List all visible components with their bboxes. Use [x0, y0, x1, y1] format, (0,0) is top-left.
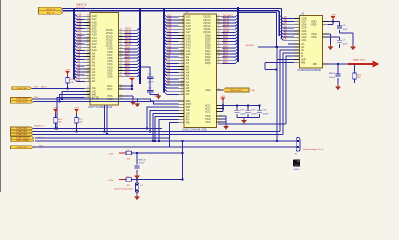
svg-text:11: 11: [87, 74, 89, 76]
svg-text:VSS: VSS: [311, 35, 317, 39]
svg-text:DQ6: DQ6: [223, 43, 228, 45]
svg-text:15: 15: [87, 61, 89, 63]
svg-text:DQ12: DQ12: [125, 38, 132, 40]
svg-text:A14: A14: [167, 39, 172, 42]
svg-text:10: 10: [87, 77, 89, 79]
svg-text:11: 11: [181, 46, 183, 48]
svg-text:31: 31: [120, 69, 122, 71]
svg-text:A12: A12: [167, 45, 172, 48]
svg-text:21: 21: [181, 77, 183, 79]
svg-text:23: 23: [181, 84, 183, 86]
svg-text:19: 19: [181, 71, 183, 73]
svg-text:37: 37: [120, 50, 122, 52]
svg-text:15: 15: [87, 96, 89, 98]
svg-text:+3V3: +3V3: [53, 107, 59, 109]
svg-text:32: 32: [120, 66, 122, 68]
svg-text:10K: 10K: [357, 77, 361, 79]
svg-text:27: 27: [87, 24, 89, 26]
svg-text:Default setting: 0pen: Default setting: 0pen: [114, 187, 134, 190]
svg-text:1: 1: [298, 17, 299, 19]
svg-text:9: 9: [88, 80, 89, 82]
svg-text:38: 38: [218, 43, 220, 45]
svg-text:A13: A13: [167, 42, 172, 45]
svg-text:14: 14: [87, 93, 89, 95]
svg-text:10: 10: [181, 43, 183, 45]
svg-text:100nF: 100nF: [329, 77, 336, 79]
svg-text:17: 17: [181, 65, 183, 67]
svg-text:33: 33: [120, 88, 122, 90]
svg-text:36: 36: [218, 37, 220, 39]
svg-text:DQ4: DQ4: [125, 63, 130, 65]
svg-text:3: 3: [298, 23, 299, 25]
svg-text:DQ13: DQ13: [223, 22, 230, 24]
svg-text:DQ15/A-1: DQ15/A-1: [223, 14, 234, 17]
svg-text:12: 12: [120, 95, 122, 97]
svg-text:29: 29: [87, 18, 89, 20]
svg-text:DQ5: DQ5: [125, 60, 130, 62]
svg-text:22: 22: [87, 40, 89, 42]
svg-text:P5M6_INT1: P5M6_INT1: [16, 147, 28, 149]
svg-text:A13: A13: [77, 39, 82, 42]
svg-text:P5M6_NWAIT: P5M6_NWAIT: [16, 139, 30, 142]
svg-text:A10: A10: [167, 52, 172, 55]
svg-text:R1H: R1H: [357, 75, 362, 77]
svg-text:4: 4: [182, 25, 183, 27]
svg-text:16: 16: [181, 62, 183, 64]
svg-text:12: 12: [87, 87, 89, 89]
svg-text:VCC: VCC: [107, 87, 113, 91]
svg-text:DQ11: DQ11: [223, 28, 230, 30]
svg-text:A17: A17: [167, 30, 172, 33]
svg-text:DQ2: DQ2: [125, 69, 130, 71]
svg-text:+3V3: +3V3: [129, 76, 135, 78]
svg-text:A0: A0: [92, 79, 96, 83]
svg-text:DQ9: DQ9: [223, 34, 228, 36]
svg-text:DQ2: DQ2: [223, 56, 228, 58]
svg-text:10K: 10K: [70, 82, 74, 84]
svg-text:11: 11: [120, 85, 122, 87]
svg-text:+3V3: +3V3: [74, 107, 80, 109]
svg-text:NAND512W3A2BN6E: NAND512W3A2BN6E: [298, 69, 322, 72]
svg-text:DQ13: DQ13: [125, 35, 132, 37]
svg-text:29: 29: [120, 75, 122, 77]
svg-text:8: 8: [298, 39, 299, 41]
svg-text:A10: A10: [77, 48, 82, 51]
svg-text:+3V3: +3V3: [220, 96, 226, 98]
svg-text:+1V8: +1V8: [331, 14, 337, 16]
svg-text:P5M6_NOE: P5M6_NOE: [16, 102, 28, 104]
svg-text:DQ3: DQ3: [223, 53, 228, 55]
svg-text:MMC9: MMC9: [329, 73, 336, 75]
svg-text:P5M6_NE1: P5M6_NE1: [16, 88, 27, 90]
svg-text:100nF: 100nF: [139, 163, 146, 165]
svg-text:38: 38: [120, 47, 122, 49]
svg-text:DQ8: DQ8: [125, 50, 130, 52]
svg-text:29: 29: [218, 15, 220, 17]
svg-text:26: 26: [218, 89, 220, 91]
svg-text:DQ15: DQ15: [125, 29, 132, 31]
svg-text:RB: RB: [313, 62, 317, 66]
svg-text:42: 42: [218, 56, 220, 58]
svg-text:10K: 10K: [79, 121, 83, 123]
svg-text:+3V3: +3V3: [108, 154, 114, 156]
svg-text:28: 28: [87, 21, 89, 23]
svg-text:100nF: 100nF: [240, 113, 247, 115]
svg-text:DQ6: DQ6: [125, 57, 130, 59]
svg-text:41: 41: [120, 38, 122, 40]
svg-text:36: 36: [120, 54, 122, 56]
svg-text:24: 24: [87, 33, 89, 35]
svg-text:10nF: 10nF: [343, 29, 348, 31]
svg-text:SW14: SW14: [294, 169, 301, 171]
svg-text:15: 15: [181, 59, 183, 61]
svg-text:A16: A16: [167, 33, 172, 36]
svg-text:37: 37: [218, 40, 220, 42]
svg-text:R: R: [301, 54, 303, 58]
svg-text:A12: A12: [77, 42, 82, 45]
svg-text:1O1: 1O1: [301, 38, 307, 42]
svg-text:PB: PB: [186, 121, 190, 125]
svg-text:21: 21: [87, 43, 89, 45]
svg-text:24: 24: [181, 87, 183, 89]
svg-text:9: 9: [182, 40, 183, 42]
svg-text:22: 22: [181, 80, 183, 82]
svg-text:DQ7: DQ7: [223, 40, 228, 42]
svg-text:34: 34: [218, 31, 220, 33]
svg-text:DQ10: DQ10: [125, 44, 132, 46]
svg-text:P5M6_NCE1: P5M6_NCE1: [230, 90, 243, 92]
svg-text:1: 1: [182, 15, 183, 17]
svg-text:10K: 10K: [58, 121, 62, 123]
svg-text:A18 R30: A18 R30: [246, 44, 255, 47]
svg-text:6: 6: [182, 31, 183, 33]
svg-text:12: 12: [181, 49, 183, 51]
svg-text:DQ14: DQ14: [223, 18, 230, 20]
svg-text:30: 30: [218, 18, 220, 20]
svg-text:5: 5: [298, 29, 299, 31]
svg-text:A20: A20: [167, 21, 172, 24]
svg-text:41: 41: [218, 53, 220, 55]
svg-text:12: 12: [87, 71, 89, 73]
svg-text:40: 40: [218, 49, 220, 51]
svg-text:I/O0: I/O0: [107, 75, 113, 79]
svg-text:DQ8: DQ8: [223, 37, 228, 39]
svg-text:A22: A22: [167, 14, 172, 17]
svg-text:13: 13: [87, 90, 89, 92]
svg-text:31: 31: [218, 22, 220, 24]
svg-text:33: 33: [218, 28, 220, 30]
svg-text:5: 5: [182, 28, 183, 30]
svg-text:4: 4: [298, 26, 299, 28]
svg-text:DQ1: DQ1: [125, 72, 130, 74]
svg-text:A19: A19: [77, 32, 82, 35]
svg-text:3: 3: [182, 22, 183, 24]
svg-text:DQ0: DQ0: [223, 62, 228, 64]
svg-text:A15: A15: [77, 23, 82, 26]
svg-text:25: 25: [87, 30, 89, 32]
svg-text:44: 44: [218, 62, 220, 64]
svg-text:DQ10: DQ10: [223, 31, 230, 33]
svg-text:25: 25: [181, 90, 183, 92]
svg-text:+3V3: +3V3: [65, 69, 71, 71]
svg-text:A21: A21: [167, 17, 172, 20]
svg-text:100nF: 100nF: [263, 113, 270, 115]
svg-text:+3V3: +3V3: [108, 180, 114, 182]
svg-text:10K: 10K: [127, 185, 131, 187]
svg-text:20: 20: [181, 74, 183, 76]
svg-text:33: 33: [120, 63, 122, 65]
svg-text:A18: A18: [77, 14, 82, 17]
svg-text:ZZ: ZZ: [186, 92, 190, 96]
svg-text:43: 43: [218, 59, 220, 61]
svg-text:VCC: VCC: [205, 109, 211, 113]
svg-text:A16: A16: [77, 20, 82, 23]
svg-text:A20: A20: [77, 29, 82, 32]
svg-text:30: 30: [120, 72, 122, 74]
svg-text:44: 44: [120, 29, 122, 31]
svg-text:100nF: 100nF: [148, 82, 155, 84]
svg-text:35: 35: [120, 57, 122, 59]
svg-text:14: 14: [87, 64, 89, 66]
svg-text:2: 2: [298, 20, 299, 22]
svg-text:26: 26: [87, 27, 89, 29]
svg-text:26: 26: [181, 93, 183, 95]
svg-text:20: 20: [87, 46, 89, 48]
svg-text:DQ5: DQ5: [223, 46, 228, 48]
svg-text:A15: A15: [167, 36, 172, 39]
svg-text:16: 16: [87, 58, 89, 60]
svg-text:19: 19: [87, 49, 89, 51]
svg-text:39: 39: [218, 46, 220, 48]
svg-text:10K: 10K: [127, 159, 131, 161]
svg-text:P5A R51 0: P5A R51 0: [34, 125, 44, 128]
svg-text:30: 30: [87, 15, 89, 17]
svg-text:DQ7: DQ7: [125, 54, 130, 56]
svg-text:A18: A18: [167, 27, 172, 30]
svg-text:32: 32: [218, 25, 220, 27]
svg-text:MMC10: MMC10: [139, 160, 147, 162]
svg-text:43: 43: [120, 32, 122, 34]
svg-text:DQ9: DQ9: [125, 47, 130, 49]
svg-text:39: 39: [120, 44, 122, 46]
svg-text:DQ1: DQ1: [223, 59, 228, 61]
svg-text:R55 0: R55 0: [41, 86, 47, 88]
svg-text:13: 13: [87, 67, 89, 69]
svg-text:34: 34: [120, 60, 122, 62]
svg-text:A17: A17: [77, 17, 82, 20]
svg-text:A14: A14: [77, 35, 82, 38]
svg-text:DQ12: DQ12: [223, 25, 230, 27]
svg-text:P5M6_NBL: P5M6_NBL: [16, 134, 27, 136]
svg-text:8: 8: [182, 37, 183, 39]
svg-text:18: 18: [87, 52, 89, 54]
svg-text:1M4YYTC16BLL-104Z: 1M4YYTC16BLL-104Z: [88, 106, 113, 109]
svg-text:17: 17: [87, 55, 89, 57]
svg-text:A19: A19: [167, 24, 172, 27]
svg-text:DQ14: DQ14: [125, 32, 132, 34]
svg-text:100nF: 100nF: [251, 113, 258, 115]
svg-text:DQ3: DQ3: [125, 66, 130, 68]
svg-text:35: 35: [218, 34, 220, 36]
svg-text:DQ0: DQ0: [205, 61, 211, 65]
svg-text:DQ4: DQ4: [223, 49, 228, 51]
svg-text:NAND_RnB: NAND_RnB: [353, 59, 365, 62]
svg-text:6: 6: [298, 33, 299, 35]
svg-text:RB: RB: [301, 61, 305, 65]
svg-text:7: 7: [182, 34, 183, 36]
svg-text:7: 7: [298, 36, 299, 38]
svg-text:13: 13: [181, 53, 183, 55]
svg-text:CE2: CE2: [205, 88, 211, 92]
svg-text:A21: A21: [77, 26, 82, 29]
svg-text:DQ11: DQ11: [125, 41, 132, 43]
svg-text:Default setting: 1<->2: Default setting: 1<->2: [303, 148, 324, 151]
svg-text:A[21..0]: A[21..0]: [47, 12, 55, 15]
svg-text:2: 2: [182, 18, 183, 20]
svg-text:10nF: 10nF: [343, 43, 348, 45]
svg-text:14: 14: [181, 56, 183, 58]
svg-text:VSS: VSS: [205, 120, 211, 124]
svg-text:40: 40: [120, 41, 122, 43]
svg-text:P5A: P5A: [251, 89, 255, 92]
svg-text:23: 23: [87, 36, 89, 38]
svg-text:42: 42: [120, 35, 122, 37]
svg-text:VDD: VDD: [311, 23, 317, 27]
svg-text:18: 18: [181, 68, 183, 70]
